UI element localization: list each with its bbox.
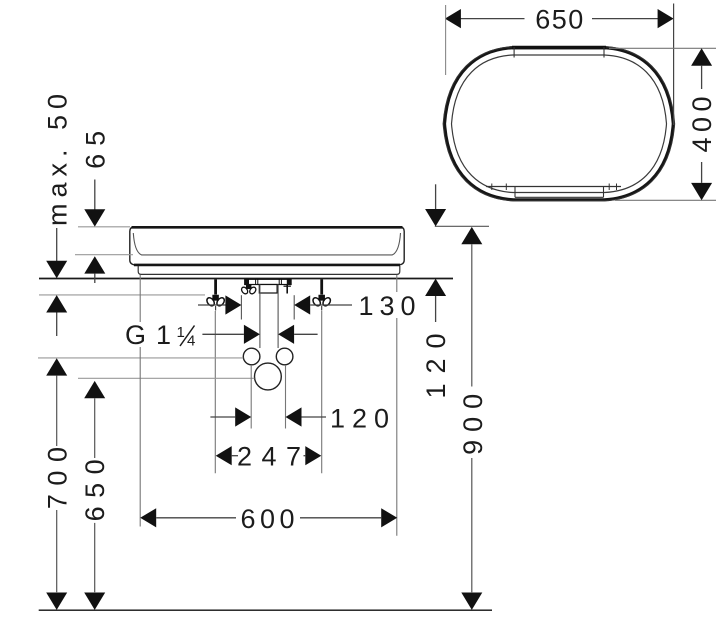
- svg-text:120: 120: [330, 403, 396, 433]
- svg-text:1: 1: [177, 324, 185, 341]
- svg-text:900: 900: [458, 386, 488, 455]
- svg-text:650: 650: [535, 4, 585, 34]
- svg-text:600: 600: [241, 504, 300, 534]
- svg-text:400: 400: [687, 91, 717, 153]
- svg-text:247: 247: [237, 442, 311, 472]
- svg-text:650: 650: [80, 451, 110, 522]
- svg-text:4: 4: [187, 333, 195, 350]
- svg-text:120: 120: [421, 323, 451, 398]
- svg-text:700: 700: [43, 439, 73, 510]
- svg-text:130: 130: [358, 291, 421, 321]
- svg-text:65: 65: [81, 123, 111, 169]
- svg-text:max. 50: max. 50: [43, 88, 73, 226]
